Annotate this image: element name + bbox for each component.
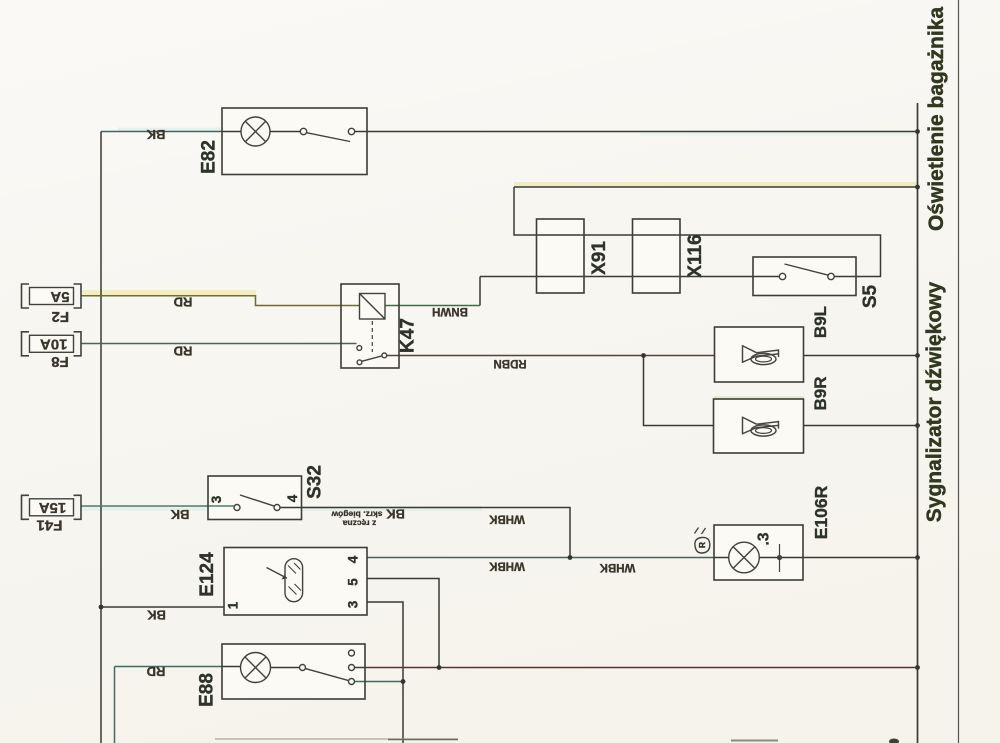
- svg-text:K47: K47: [398, 318, 419, 353]
- svg-text:RD: RD: [147, 664, 166, 679]
- svg-text:.3: .3: [756, 532, 773, 545]
- svg-text:F2: F2: [52, 308, 70, 325]
- svg-text:BK: BK: [147, 608, 166, 623]
- svg-text:WHBK: WHBK: [488, 560, 524, 572]
- svg-text:X116: X116: [685, 234, 706, 277]
- svg-text:BK: BK: [146, 127, 165, 142]
- svg-text:3: 3: [346, 600, 361, 608]
- svg-text:S32: S32: [305, 465, 326, 499]
- svg-text:5A: 5A: [50, 288, 69, 305]
- svg-text:5: 5: [346, 578, 361, 586]
- svg-text:X91: X91: [589, 241, 610, 275]
- svg-text:S5: S5: [860, 284, 881, 308]
- svg-text:BK: BK: [170, 507, 189, 522]
- svg-text:1: 1: [226, 601, 241, 609]
- svg-text:RD: RD: [174, 295, 193, 310]
- svg-text:skrz. biegów: skrz. biegów: [331, 510, 382, 520]
- svg-text:10A: 10A: [40, 336, 68, 353]
- svg-text:Oświetlenie bagażnika: Oświetlenie bagażnika: [925, 7, 948, 231]
- svg-text:4: 4: [285, 494, 300, 502]
- svg-text:WHBK: WHBK: [599, 561, 635, 573]
- svg-text:15A: 15A: [39, 499, 67, 516]
- svg-text:RD: RD: [174, 344, 193, 359]
- svg-text:E82: E82: [199, 140, 220, 174]
- svg-text:3: 3: [209, 495, 224, 503]
- svg-text:WHBK: WHBK: [488, 513, 524, 525]
- svg-text:B9R: B9R: [811, 376, 830, 410]
- svg-text:B9L: B9L: [811, 306, 830, 338]
- svg-text:E124: E124: [197, 552, 218, 597]
- svg-text:z ręczna: z ręczna: [342, 519, 376, 529]
- svg-text:4: 4: [346, 555, 361, 563]
- svg-text:R: R: [697, 542, 707, 548]
- svg-text:RDBN: RDBN: [493, 357, 526, 369]
- svg-text:Sygnalizator dźwiękowy: Sygnalizator dźwiękowy: [923, 281, 946, 522]
- svg-text:BNWH: BNWH: [432, 305, 468, 317]
- svg-text:F41: F41: [37, 516, 63, 533]
- svg-text:F8: F8: [51, 353, 69, 370]
- svg-text:E88: E88: [197, 673, 218, 707]
- svg-text:BK: BK: [386, 507, 405, 522]
- svg-text:E106R: E106R: [811, 485, 831, 539]
